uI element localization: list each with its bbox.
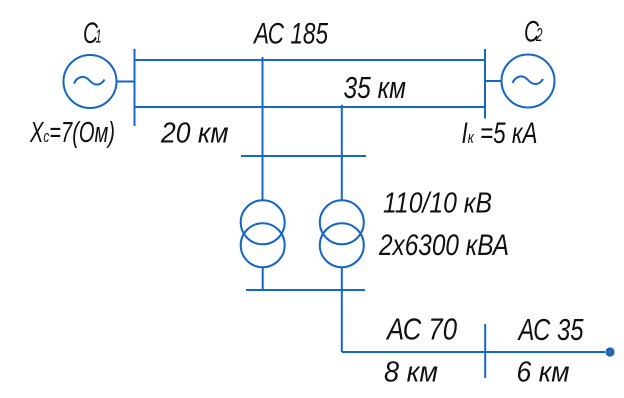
- wire tap T2 drop: [341, 105, 343, 201]
- svg-text:20 км: 20 км: [160, 117, 229, 149]
- svg-text:2х6300 кВА: 2х6300 кВА: [378, 229, 509, 262]
- svg-text:АС 70: АС 70: [385, 313, 457, 347]
- svg-text:1: 1: [96, 27, 102, 47]
- transformer T1: [241, 200, 285, 267]
- wire feeder drop: [341, 290, 343, 352]
- svg-text:110/10 кВ: 110/10 кВ: [383, 188, 492, 220]
- wire T1 secondary lead: [262, 267, 264, 290]
- wire line AC185 bottom conductor: [135, 106, 486, 108]
- wire tap T1 drop: [262, 57, 264, 201]
- svg-text:Хс=7(Ом): Хс=7(Ом): [29, 117, 115, 149]
- generator C2: [502, 55, 555, 108]
- wire C2 lead: [485, 80, 502, 82]
- svg-text:6 км: 6 км: [517, 356, 570, 388]
- node left bus bar: [134, 49, 136, 126]
- svg-text:8 км: 8 км: [384, 356, 438, 388]
- node feeder section divider: [484, 324, 486, 378]
- wire line AC185 top conductor: [135, 59, 486, 61]
- node LV bus of transformers: [246, 289, 365, 291]
- svg-text:АС 35: АС 35: [517, 313, 584, 347]
- node right bus bar: [484, 49, 486, 119]
- wire T2 secondary lead: [341, 267, 343, 290]
- node HV bus of transformers: [241, 155, 366, 157]
- svg-text:2: 2: [535, 25, 542, 45]
- svg-text:АС 185: АС 185: [252, 17, 328, 50]
- svg-text:Iк =5 кА: Iк =5 кА: [462, 117, 538, 150]
- wire C1 lead: [117, 81, 135, 83]
- node load endpoint: [605, 347, 614, 356]
- svg-text:35 км: 35 км: [344, 71, 407, 105]
- transformer T2: [320, 200, 364, 267]
- wire feeder line AC70/AC35: [342, 351, 605, 353]
- generator C1: [64, 55, 117, 108]
